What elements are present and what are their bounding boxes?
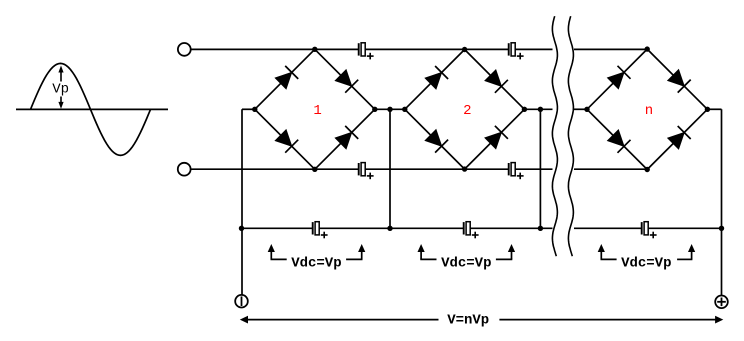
capacitor C7	[642, 222, 657, 239]
wire vertical node A	[389, 109, 391, 228]
node bridge 1 right	[372, 107, 377, 112]
Vp label	[52, 81, 69, 97]
sine wave curve	[31, 63, 151, 155]
svg-text:Vdc=Vp: Vdc=Vp	[441, 256, 491, 272]
capacitor C5	[313, 222, 328, 239]
wire bottom rail seg4	[574, 227, 642, 229]
diode Dnd (bottom to right)	[647, 109, 707, 169]
capacitor C6	[464, 222, 479, 239]
node bridge 2 right	[522, 107, 527, 112]
node bridge n left	[584, 107, 589, 112]
negative output terminal	[235, 295, 248, 308]
Vdc bracket 3	[598, 244, 696, 259]
wire right vertical to positive terminal	[721, 109, 723, 295]
junction bottom rail B	[538, 226, 543, 231]
svg-text:n: n	[645, 103, 653, 119]
node bridge n right	[705, 107, 710, 112]
wire top rail C1 to C2	[365, 48, 509, 50]
wire mid rail bridge2 to break	[524, 108, 552, 110]
V=nVp label	[447, 313, 489, 329]
wire bottom rail seg3	[470, 227, 552, 229]
Vdc=Vp label 3	[621, 256, 671, 272]
junction mid rail B	[538, 107, 543, 112]
svg-text:Vp: Vp	[52, 81, 69, 97]
Vdc=Vp label 2	[441, 256, 491, 272]
diode Dna (left to top)	[587, 49, 647, 109]
wire top rail C2 to break	[515, 48, 552, 50]
bridge 1 label	[313, 103, 321, 119]
diode D2d (bottom to right)	[465, 109, 525, 169]
input terminal bottom	[178, 163, 191, 176]
V=nVp measurement arrow	[240, 316, 724, 324]
diode D1a (left to top)	[255, 49, 315, 109]
bridge 2 label	[463, 103, 471, 119]
capacitor C4	[509, 163, 524, 180]
capacitor C2	[509, 43, 524, 60]
wire lower rail C3 to C4	[365, 168, 509, 170]
capacitor C3	[359, 163, 374, 180]
wire bottom rail seg1	[242, 227, 313, 229]
junction mid rail A	[387, 107, 392, 112]
diode Dnc (left to bottom)	[587, 109, 647, 169]
capacitor C1	[359, 43, 374, 60]
sine wave baseline (input waveform axis)	[16, 108, 168, 110]
node bridge 2 top	[462, 47, 467, 52]
diode D2a (left to top)	[405, 50, 465, 110]
svg-text:Vdc=Vp: Vdc=Vp	[621, 256, 671, 272]
node bridge n top	[645, 46, 650, 51]
wire vertical node B	[539, 109, 541, 228]
Vdc bracket 2	[418, 244, 516, 259]
diode D2b (top to right)	[465, 50, 525, 110]
node bridge n bottom	[645, 167, 650, 172]
junction bottom rail right	[719, 226, 724, 231]
Vdc=Vp label 1	[291, 256, 341, 272]
break squiggle left	[552, 16, 557, 256]
Vdc bracket 1	[268, 244, 366, 259]
junction bottom rail left	[239, 226, 244, 231]
wire top rail break to bridge n	[574, 48, 647, 50]
input terminal top	[178, 43, 191, 56]
Vp measurement arrow	[58, 66, 63, 109]
svg-text:Vdc=Vp: Vdc=Vp	[291, 256, 341, 272]
wire mid rail right stub	[707, 108, 721, 110]
node bridge 1 left	[252, 107, 257, 112]
node bridge 1 bottom	[312, 167, 317, 172]
diode Dnb (top to right)	[647, 49, 707, 109]
positive output terminal	[715, 296, 728, 309]
diode D1b (top to right)	[315, 49, 375, 109]
svg-text:2: 2	[463, 103, 471, 119]
wire lower rail break to bridge n	[574, 168, 647, 170]
diode D1d (bottom to right)	[315, 109, 375, 169]
diode D2c (left to bottom)	[405, 109, 465, 169]
node bridge 2 bottom	[462, 166, 467, 171]
wire left vertical to negative terminal	[241, 109, 243, 295]
wire lower rail C4 to break	[515, 168, 552, 170]
wire mid rail break to bridge n	[574, 108, 587, 110]
break squiggle right	[568, 16, 573, 256]
svg-text:1: 1	[313, 103, 321, 119]
junction bottom rail A	[387, 226, 392, 231]
diode D1c (left to bottom)	[255, 109, 315, 169]
wire bottom rail seg2	[319, 227, 464, 229]
bridge n label	[645, 103, 653, 119]
node bridge 1 top	[312, 47, 317, 52]
wire bottom rail seg5	[648, 227, 721, 229]
svg-text:V=nVp: V=nVp	[447, 313, 489, 329]
node bridge 2 left	[402, 107, 407, 112]
wire mid rail left stub	[242, 108, 255, 110]
wire top rail from input to C1	[191, 48, 359, 50]
wire mid rail bridge1 to bridge2	[375, 108, 405, 110]
wire lower rail from input to C3	[191, 168, 359, 170]
